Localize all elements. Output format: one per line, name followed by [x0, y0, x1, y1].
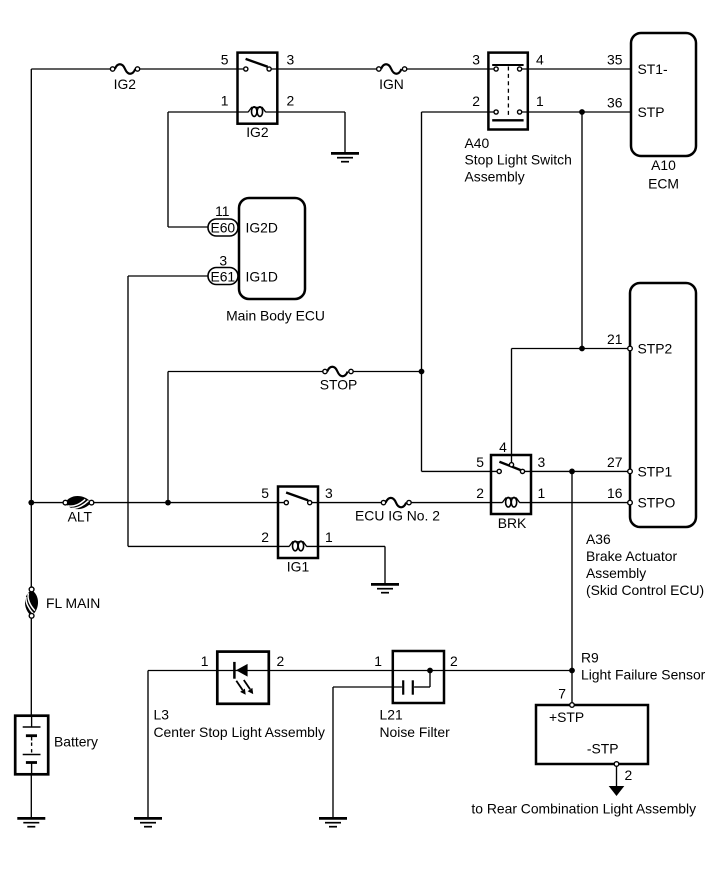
wire: IG1 pin 1 to ground drop	[306, 545, 385, 547]
wire: IG2 fuse to IG2 relay pin 5	[138, 68, 246, 70]
ECU Main Body ECU box	[239, 198, 305, 299]
node: junction STP2 row	[579, 346, 585, 352]
battery	[15, 716, 48, 775]
wire: battery negative to ground	[30, 774, 32, 817]
svg-text:3: 3	[325, 485, 333, 501]
ground (IG2 relay pin 2)	[331, 153, 359, 161]
node: junction STOP row	[419, 369, 425, 375]
wire: IGN fuse to A40 pin 3	[405, 68, 497, 70]
pin 21 STP2 circle	[628, 346, 633, 351]
svg-text:2: 2	[625, 767, 633, 783]
pin 2 -STP circle	[614, 762, 619, 767]
wire: STP2 row to A36 pin 21	[512, 348, 631, 350]
svg-text:STOP: STOP	[320, 376, 358, 392]
svg-text:3: 3	[287, 52, 295, 68]
node: junction BRK pin3 / STP1 row	[569, 469, 575, 475]
wire: ECU IG fuse to BRK pin 2	[409, 502, 502, 504]
ground (L3 center stop light)	[134, 818, 162, 826]
wire: L21 capacitor lead right	[414, 686, 430, 688]
wire: IG1 coil row from E61 drop	[128, 545, 289, 547]
filter L21 noise filter (capacitor)	[393, 651, 444, 703]
wire: A40 pin 4 to ECM pin 35	[520, 68, 631, 70]
svg-text:21: 21	[607, 331, 623, 347]
relay IG2	[238, 53, 278, 124]
wire: E61 lead	[128, 275, 210, 277]
svg-text:36: 36	[607, 95, 623, 111]
switch A40 stop light switch	[488, 53, 527, 130]
svg-text:to Rear Combination Light Asse: to Rear Combination Light Assembly	[471, 801, 696, 817]
relay IG1	[278, 487, 318, 559]
fuse IG2	[110, 64, 139, 73]
svg-text:11: 11	[215, 203, 230, 219]
wire: vertical A40 pin2 down to BRK pin 5	[421, 112, 423, 471]
fusible link ALT	[63, 496, 94, 509]
svg-text:1: 1	[325, 529, 333, 545]
svg-text:2: 2	[472, 93, 480, 109]
node: junction battery bus / ALT row	[28, 500, 34, 506]
svg-text:3: 3	[538, 454, 546, 470]
svg-text:27: 27	[607, 454, 623, 470]
wire: battery feed to IG2 fuse (top row)	[31, 68, 112, 70]
wire: IG2 relay pin 2 to ground drop	[265, 111, 345, 113]
svg-text:A10: A10	[651, 157, 676, 173]
wire: vertical L3 pin1 to ground	[147, 671, 149, 818]
svg-text:BRK: BRK	[498, 515, 527, 531]
fuse IGN	[377, 64, 407, 73]
svg-text:IG2: IG2	[114, 76, 137, 92]
wire: BRK pin 5 feed	[422, 470, 500, 472]
svg-text:Stop Light Switch: Stop Light Switch	[465, 152, 572, 168]
svg-text:Assembly: Assembly	[586, 565, 646, 581]
svg-text:4: 4	[499, 439, 507, 455]
wire: BRK pin 3 to A36 STP1	[523, 470, 631, 472]
svg-text:+STP: +STP	[549, 709, 584, 725]
svg-text:1: 1	[201, 653, 209, 669]
wire: ALT link to IG1 pin 5	[92, 502, 287, 504]
svg-text:-STP: -STP	[587, 741, 619, 757]
svg-text:5: 5	[261, 485, 269, 501]
wire: IG2 relay pin 3 to IGN fuse	[269, 68, 379, 70]
svg-text:Center Stop Light Assembly: Center Stop Light Assembly	[154, 724, 325, 740]
wire: vertical ECM STP junction down to STP2 row	[581, 112, 583, 349]
svg-text:Brake Actuator: Brake Actuator	[586, 548, 677, 564]
svg-text:1: 1	[374, 653, 382, 669]
wire: IG2 relay pin 1 to coil	[168, 111, 248, 113]
wire: vertical STP2 corner down to BRK pin 4	[511, 349, 513, 463]
lamp L3 center stop light (LED)	[217, 652, 268, 704]
svg-text:4: 4	[536, 52, 544, 68]
svg-text:STP2: STP2	[638, 341, 673, 357]
svg-text:7: 7	[558, 686, 566, 702]
svg-text:2: 2	[476, 485, 484, 501]
wire: vertical L21 capacitor to ground	[332, 687, 334, 818]
fusible link FL MAIN	[25, 587, 38, 618]
node: junction L21 capacitor tap	[427, 668, 433, 674]
svg-text:2: 2	[287, 93, 295, 109]
svg-text:A36: A36	[586, 531, 611, 547]
wire: vertical STOP row corner down to ALT row	[167, 372, 169, 503]
svg-text:FL MAIN: FL MAIN	[46, 595, 100, 611]
connector E61	[208, 268, 238, 285]
svg-text:5: 5	[221, 52, 229, 68]
fuse STOP	[323, 367, 353, 376]
ground (IG1 relay pin 1)	[371, 584, 399, 592]
svg-text:IGN: IGN	[379, 76, 404, 92]
wire: IG2 relay ground drop vertical	[344, 112, 346, 153]
svg-text:1: 1	[221, 93, 229, 109]
svg-text:1: 1	[538, 485, 546, 501]
svg-text:16: 16	[607, 485, 623, 501]
relay BRK	[491, 455, 531, 514]
ground (L21 noise filter)	[319, 818, 347, 826]
svg-text:L3: L3	[154, 707, 170, 723]
wire: R9 -STP output to arrow	[616, 764, 618, 787]
node: junction R9 drop / lamp row	[569, 668, 575, 674]
wire: battery row to ALT link	[31, 502, 65, 504]
wire: bottom lamp row L3/L21 to R9 junction	[148, 670, 572, 672]
wire: IG1 ground drop vertical	[384, 546, 386, 583]
wire: L21 capacitor lead up to junction	[429, 671, 431, 688]
svg-text:Assembly: Assembly	[465, 168, 525, 184]
svg-text:STPO: STPO	[638, 495, 676, 511]
wire: main vertical battery bus upper	[30, 69, 32, 587]
svg-text:Light Failure Sensor: Light Failure Sensor	[581, 666, 706, 682]
svg-text:3: 3	[219, 253, 227, 269]
wire: STOP fuse row left segment	[168, 371, 325, 373]
svg-text:5: 5	[476, 454, 484, 470]
node: junction ECM STP	[579, 109, 585, 115]
svg-text:2: 2	[261, 529, 269, 545]
svg-text:R9: R9	[581, 649, 599, 665]
pin 7 +STP circle	[570, 703, 575, 708]
svg-text:STP1: STP1	[638, 463, 673, 479]
svg-text:A40: A40	[465, 135, 490, 151]
pin 16 STPO circle	[628, 500, 633, 505]
svg-text:1: 1	[536, 93, 544, 109]
svg-text:E61: E61	[210, 269, 235, 285]
svg-text:IG2D: IG2D	[246, 220, 278, 236]
svg-text:3: 3	[472, 52, 480, 68]
wire: BRK pin 1 to A36 STPO	[519, 502, 630, 504]
svg-text:IG1D: IG1D	[246, 269, 278, 285]
connector E60	[208, 219, 238, 236]
node: junction STOP drop / ALT row	[165, 500, 171, 506]
svg-text:STP: STP	[638, 104, 665, 120]
svg-text:Main Body ECU: Main Body ECU	[226, 307, 325, 323]
svg-text:ECM: ECM	[648, 176, 679, 192]
svg-text:2: 2	[277, 653, 285, 669]
ground (battery)	[17, 818, 45, 826]
wire: main vertical battery bus lower	[30, 618, 32, 716]
svg-text:E60: E60	[210, 220, 235, 236]
wire: A40 pin 1 to ECM pin 36	[520, 111, 631, 113]
svg-text:IG2: IG2	[246, 124, 269, 140]
svg-text:IG1: IG1	[287, 559, 310, 575]
ECU A36 brake actuator box	[630, 283, 696, 527]
wire: STOP fuse row right segment	[351, 371, 422, 373]
arrow to rear combination light	[609, 786, 625, 796]
svg-text:2: 2	[450, 653, 458, 669]
svg-text:ECU IG No. 2: ECU IG No. 2	[355, 507, 440, 523]
svg-text:Battery: Battery	[54, 734, 98, 750]
wire: vertical IG2 pin1 down to E60	[167, 112, 169, 227]
svg-text:35: 35	[607, 52, 623, 68]
svg-text:(Skid Control ECU): (Skid Control ECU)	[586, 582, 704, 598]
wire: vertical E61 down to IG1 coil row	[127, 276, 129, 546]
svg-text:L21: L21	[380, 707, 403, 723]
wire: A40 pin 2 to left drop	[422, 111, 497, 113]
fuse ECU IG No. 2	[381, 498, 411, 507]
wire: L21 capacitor lead left	[333, 686, 402, 688]
pin 27 STP1 circle	[628, 469, 633, 474]
sensor R9 light failure sensor box	[536, 705, 648, 764]
ECU A10 ECM box	[631, 33, 696, 156]
svg-text:ALT: ALT	[68, 509, 93, 525]
svg-text:ST1-: ST1-	[638, 61, 668, 77]
wire: E60 lead	[168, 226, 210, 228]
svg-text:Noise Filter: Noise Filter	[380, 724, 451, 740]
wire: IG1 pin 3 to ECU IG fuse	[310, 502, 384, 504]
wire: vertical BRK pin3 junction down to R9 pin 7	[571, 471, 573, 702]
